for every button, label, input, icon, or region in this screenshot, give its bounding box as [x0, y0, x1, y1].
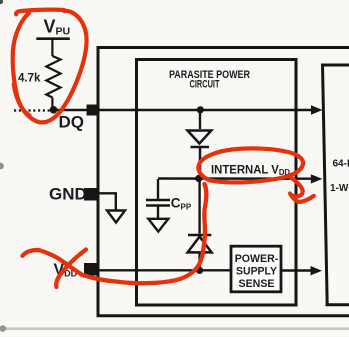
resistor R 4.7k	[46, 40, 60, 109]
svg-text:GND: GND	[49, 185, 87, 204]
node VDD junction	[196, 267, 203, 274]
svg-text:64-BIT ROM: 64-BIT ROM	[333, 159, 349, 170]
diode D1 (down)	[188, 131, 212, 179]
power rail VPU bar	[36, 37, 70, 40]
svg-text:1-Wire PORT: 1-Wire PORT	[330, 183, 349, 194]
arrow DQ into ROM box	[311, 105, 323, 114]
red circle around VPU resistor	[13, 10, 87, 123]
gray bullet left edge	[0, 163, 4, 170]
svg-text:DQ: DQ	[59, 113, 85, 132]
svg-text:SUPPLY: SUPPLY	[236, 265, 278, 277]
ground symbol GND	[107, 211, 125, 223]
node DQ junction	[50, 106, 58, 114]
64-bit ROM box (cut off right)	[321, 64, 349, 305]
label POWER-SUPPLY SENSE	[235, 253, 279, 290]
power-supply sense box	[231, 246, 281, 292]
capacitor CPP	[146, 179, 170, 218]
wire VDD rail to diode D2	[198, 179, 200, 234]
red circle around INTERNAL VDD	[198, 148, 313, 201]
pin VDD square	[84, 263, 97, 276]
gray separator bottom	[4, 327, 349, 330]
wire DQ to diode D1	[199, 110, 201, 129]
wire GND to ground	[97, 193, 116, 210]
pin DQ square	[87, 105, 99, 116]
arrow power supply sense into ROM box	[311, 266, 323, 275]
wire VDD bottom line right	[281, 269, 313, 271]
wire internal VDD rail	[158, 177, 313, 180]
svg-text:SENSE: SENSE	[239, 278, 275, 290]
svg-text:INTERNAL VDD: INTERNAL VDD	[211, 164, 290, 177]
big box chip outline	[97, 48, 349, 318]
wire DQ dotted stub	[14, 109, 50, 111]
node DQ inner junction	[197, 106, 204, 113]
gray mark top left corner	[0, 0, 3, 4]
red line from VDD ellipse down and left through X	[23, 184, 207, 283]
gray separator cap	[0, 325, 6, 332]
parasite power circuit box	[137, 60, 297, 306]
wire DQ line	[52, 109, 313, 111]
svg-text:POWER-: POWER-	[235, 253, 279, 265]
red X slash over VDD	[56, 250, 86, 288]
svg-text:CIRCUIT: CIRCUIT	[190, 79, 220, 91]
diode D2 (up)	[188, 235, 212, 271]
arrow internal VDD into ROM box	[311, 174, 323, 183]
wire VDD bottom line left	[97, 269, 231, 271]
svg-text:4.7k: 4.7k	[18, 73, 41, 85]
label PARASITE POWER CIRCUIT	[169, 69, 250, 91]
ground symbol CPP	[148, 219, 168, 232]
node internal VDD junction	[195, 175, 202, 182]
pin GND square	[84, 188, 97, 201]
